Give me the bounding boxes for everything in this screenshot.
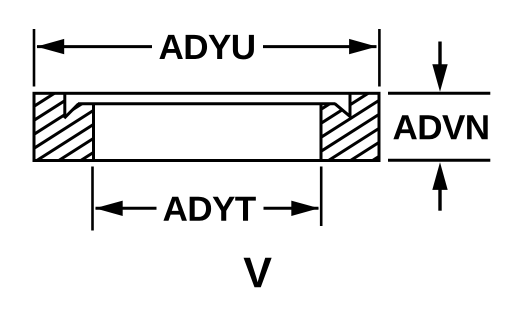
ADYU dimension line left segment <box>37 45 152 48</box>
ADVN bottom arrow line <box>438 190 441 211</box>
right notch vertical <box>349 93 352 116</box>
ADYT right arrowhead <box>291 201 319 216</box>
ADVN top reference line <box>388 92 490 95</box>
ADYT left arrowhead <box>95 201 123 216</box>
part outer outline <box>34 93 379 160</box>
hatch lines left block <box>20 44 110 213</box>
ADYT dimension line left segment <box>96 207 157 210</box>
label ADYT <box>163 197 255 221</box>
inner groove top line <box>78 102 336 105</box>
label ADVN <box>393 115 487 139</box>
ADYT right extension line <box>320 167 323 227</box>
left notch vertical <box>63 93 66 118</box>
ADYU right arrowhead <box>349 39 377 54</box>
ADVN bottom arrowhead <box>432 162 447 190</box>
ADVN top arrowhead <box>432 64 447 92</box>
ADVN top arrow line <box>438 42 441 66</box>
label ADYU <box>159 35 254 59</box>
left groove wall <box>92 104 95 161</box>
ADYU right extension line <box>378 29 381 87</box>
ADYT dimension line right segment <box>264 207 319 210</box>
ADYT left extension line <box>91 167 94 231</box>
ADYU left arrowhead <box>37 39 65 54</box>
right groove wall <box>320 104 323 161</box>
ADVN bottom reference line <box>388 159 490 162</box>
label V <box>244 258 272 288</box>
ADYU dimension line right segment <box>263 45 377 48</box>
right notch diagonal <box>335 104 351 117</box>
ADYU left extension line <box>33 29 36 87</box>
hatch lines right block <box>310 37 390 214</box>
left notch diagonal <box>64 104 78 118</box>
